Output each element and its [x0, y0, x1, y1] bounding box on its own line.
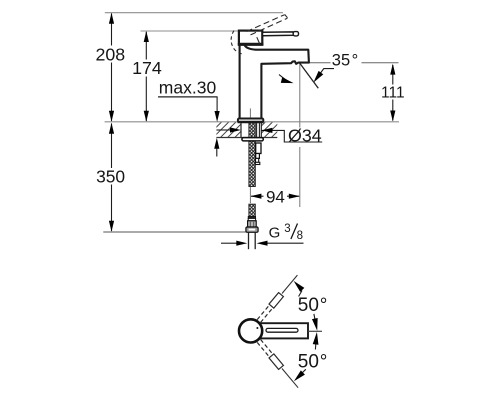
- leader arrow for 35 degrees: [317, 69, 335, 79]
- svg-text:50°: 50°: [298, 351, 328, 372]
- handle top view rectangle: [256, 323, 308, 338]
- lever raised (dashed phantom): [247, 15, 288, 44]
- wire extension line for 174: [141, 30, 239, 32]
- svg-text:350: 350: [96, 166, 125, 186]
- phantom handle at +50 degrees (upper dashed ray): [257, 275, 297, 322]
- base flange: [238, 119, 263, 123]
- deck section bottom line: [216, 137, 277, 139]
- node hole edge left: [240, 122, 242, 138]
- spray direction line 35 degrees: [300, 63, 319, 88]
- dimension 174: [145, 32, 147, 121]
- washer under deck: [242, 138, 263, 141]
- svg-text:35°: 35°: [332, 51, 358, 69]
- wire spout outlet vertical extension: [299, 64, 301, 128]
- angular dim lower: arrow to centerline: [315, 337, 316, 350]
- angular dim upper 50: arrow at phantom line: [299, 291, 302, 297]
- connector nut G3/8: [246, 227, 258, 232]
- dimension 350: [111, 124, 113, 232]
- deck hatch left: [206, 122, 250, 138]
- angular dim lower: arrow at phantom line: [299, 369, 306, 376]
- stud tube through deck: [256, 122, 258, 141]
- svg-text:50°: 50°: [298, 295, 328, 316]
- wire extension line top for 208: [105, 12, 283, 14]
- mounting stud assembly: [256, 143, 261, 154]
- svg-text:208: 208: [95, 44, 125, 64]
- threaded shank and flexible hose (cross-hatched): [249, 122, 255, 187]
- dimension 94: [251, 195, 264, 197]
- faucet body and spout outline: [239, 44, 241, 118]
- wire spout level extension line: [309, 62, 331, 64]
- deck hatch right: [250, 122, 287, 138]
- svg-text:Ø34: Ø34: [288, 125, 322, 145]
- node hole edge right: [260, 122, 262, 138]
- wire centerline right of handle: [308, 330, 322, 332]
- wire centerline of faucet axis: [249, 108, 251, 121]
- svg-text:max.30: max.30: [159, 78, 217, 98]
- hose ferrule: [248, 216, 255, 218]
- svg-text:174: 174: [132, 58, 162, 78]
- pivot dot: [256, 327, 258, 329]
- svg-text:8: 8: [297, 230, 303, 242]
- handle slot: [266, 328, 298, 332]
- faucet body circle (top view): [239, 319, 262, 342]
- dimension 208: [111, 14, 113, 122]
- svg-text:94: 94: [266, 187, 285, 206]
- dimension 111: [392, 65, 394, 85]
- svg-text:111: 111: [381, 84, 405, 101]
- arc arrow left of outlet: [279, 75, 291, 83]
- lever handle (horizontal): [263, 32, 294, 36]
- dimension Ø34 leader: [216, 129, 230, 131]
- phantom handle at -50 degrees (lower dashed ray): [257, 340, 298, 388]
- wire deck top extension line: [105, 121, 399, 123]
- svg-text:3: 3: [284, 223, 290, 235]
- connector knurl: [248, 221, 257, 227]
- cartridge housing: [239, 31, 262, 45]
- pipe end: [248, 232, 250, 249]
- angular dim upper: arrow to centerline: [314, 314, 317, 327]
- rotation arc (dashed): [231, 31, 244, 55]
- wire extension line bottom of 350: [103, 231, 246, 233]
- dimension G3/8 pointer arrows: [221, 242, 237, 244]
- svg-text:G: G: [269, 225, 281, 242]
